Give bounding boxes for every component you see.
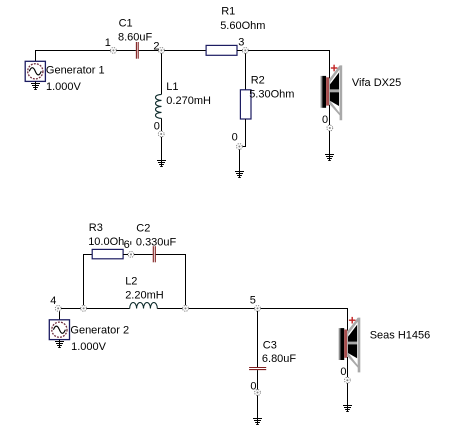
svg-text:0: 0 — [250, 380, 256, 392]
node 6 — [124, 239, 134, 257]
cone gray frame — [347, 318, 360, 373]
junction node B — [183, 306, 189, 312]
svg-text:4: 4 — [50, 295, 56, 307]
svg-text:0: 0 — [322, 114, 328, 126]
ground (below Vifa) — [325, 155, 334, 161]
wire: node 3 to top-right corner — [248, 51, 329, 79]
magnet gray back — [321, 76, 323, 108]
svg-text:0: 0 — [154, 121, 160, 133]
speaker LS1 "Vifa DX25" — [321, 65, 402, 121]
wire: node 0 to ground (Vifa) — [329, 131, 331, 161]
svg-text:5.30Ohm: 5.30Ohm — [249, 89, 294, 101]
resistor R1 — [206, 6, 265, 56]
svg-text:6: 6 — [124, 239, 130, 251]
magnet gray back — [339, 328, 341, 360]
svg-text:L1: L1 — [166, 81, 178, 93]
node 3 — [238, 36, 248, 53]
svg-text:1: 1 — [105, 37, 111, 49]
ground (generator 1) — [31, 81, 40, 89]
remnant of m under node label — [130, 241, 131, 245]
wire: node 0 to ground (C3) — [257, 395, 259, 424]
wire: C3 to node 0 — [257, 370, 259, 390]
node 0 (below Seas) — [340, 366, 350, 383]
cone mid band — [330, 89, 339, 92]
capacitor C3 — [249, 340, 296, 370]
upper black wedge — [330, 73, 339, 90]
cone mid band — [348, 342, 357, 345]
svg-text:8.60uF: 8.60uF — [118, 31, 153, 43]
svg-text:R2: R2 — [251, 74, 265, 86]
node 2 — [153, 40, 164, 53]
wire: gen1 to node 1 — [35, 50, 111, 52]
cone gray frame — [329, 65, 342, 120]
wire: C1 to node 2 — [139, 50, 159, 52]
wire: node 4 to junction A — [61, 308, 81, 310]
ground (below R2) — [235, 172, 244, 178]
ground (below Seas) — [343, 406, 352, 412]
magnet — [322, 76, 326, 108]
wire: junction B to node 5 — [189, 308, 255, 310]
resistor R2 — [240, 74, 294, 119]
capacitor C2 — [136, 222, 177, 262]
wire: node 5 to top of Seas speaker — [261, 309, 348, 331]
wire: C2 down to junction B — [156, 255, 186, 306]
wire: node 0 to ground (R2) — [239, 149, 241, 177]
wire: L1 to node 0 — [161, 118, 163, 131]
svg-text:6.80uF: 6.80uF — [262, 353, 297, 365]
wire: node 5 down to C3 — [257, 311, 259, 367]
node 1 — [105, 37, 117, 53]
wire: node 2 to R1 — [164, 50, 206, 52]
lower black wedge — [348, 344, 357, 358]
svg-text:1.000V: 1.000V — [46, 81, 82, 93]
svg-text:0: 0 — [232, 132, 238, 144]
wire: node 0 to ground (L1) — [161, 137, 163, 167]
svg-text:5.60Ohm: 5.60Ohm — [220, 20, 265, 32]
wire: junction A up to R3 branch — [84, 255, 93, 306]
node 0 (below L1) — [154, 121, 164, 137]
node 4 — [50, 295, 61, 312]
capacitor C1 — [118, 18, 153, 59]
svg-text:Seas H1456: Seas H1456 — [370, 330, 431, 342]
red stripe — [344, 330, 347, 358]
svg-text:Vifa DX25: Vifa DX25 — [352, 77, 401, 89]
svg-text:0: 0 — [340, 366, 346, 378]
wire: R3 to node 6 — [123, 254, 128, 256]
red stripe — [326, 77, 329, 105]
svg-text:0.270mH: 0.270mH — [166, 95, 211, 107]
svg-text:C2: C2 — [136, 222, 150, 234]
ground (generator 2) — [55, 340, 64, 348]
wire: R2 down and jog to node 0 — [242, 119, 245, 147]
svg-text:1.000V: 1.000V — [71, 341, 107, 353]
wire: node 6 to C2 — [134, 254, 153, 256]
wire: junction A to L2 — [87, 308, 130, 310]
generator U2 "Generator 2" — [49, 320, 129, 353]
resistor R3 — [88, 222, 131, 259]
svg-text:C3: C3 — [263, 340, 277, 352]
generator U1 "Generator 1" — [25, 61, 104, 93]
svg-text:0.330uF: 0.330uF — [136, 237, 177, 249]
inductor L1 — [156, 81, 211, 118]
node 0 (below R2) — [232, 132, 243, 150]
wire: node 2 down to L1 — [161, 53, 163, 94]
wire: Seas bottom lead — [347, 357, 349, 377]
magnet — [340, 328, 344, 360]
wire: generator 1 top lead — [35, 51, 37, 62]
ground (below C3) — [253, 419, 262, 425]
wire: generator 2 top lead — [59, 308, 61, 320]
junction node A — [81, 306, 87, 312]
upper black wedge — [348, 325, 357, 342]
wire: node 3 down to R2 — [245, 53, 247, 90]
svg-text:Generator 1: Generator 1 — [46, 65, 105, 77]
svg-text:5: 5 — [250, 295, 256, 307]
node 5 — [250, 295, 261, 312]
wire: speaker bottom lead — [329, 105, 331, 125]
node 0 (below Vifa) — [322, 114, 333, 131]
wire: node 0 to ground (Seas) — [347, 383, 349, 411]
plus terminal — [331, 65, 338, 72]
svg-text:C1: C1 — [119, 18, 133, 30]
svg-text:2: 2 — [153, 40, 159, 52]
inductor L2 — [125, 276, 164, 309]
lower black wedge — [330, 92, 339, 106]
svg-text:2.20mH: 2.20mH — [125, 290, 164, 302]
plus terminal — [349, 317, 356, 324]
wire: node 1 to C1 — [116, 50, 136, 52]
svg-text:R1: R1 — [221, 6, 235, 18]
speaker LS2 "Seas H1456" — [339, 317, 361, 373]
svg-text:Generator 2: Generator 2 — [70, 324, 129, 336]
svg-text:10.0Oh: 10.0Oh — [88, 236, 124, 248]
svg-text:L2: L2 — [125, 276, 137, 288]
node 0 (below C3) — [250, 380, 260, 395]
ground (below L1) — [157, 161, 166, 167]
svg-text:R3: R3 — [89, 222, 103, 234]
svg-text:3: 3 — [238, 36, 244, 48]
wire: R1 to node 3 — [237, 50, 242, 52]
wire: L2 to junction B — [157, 308, 182, 310]
